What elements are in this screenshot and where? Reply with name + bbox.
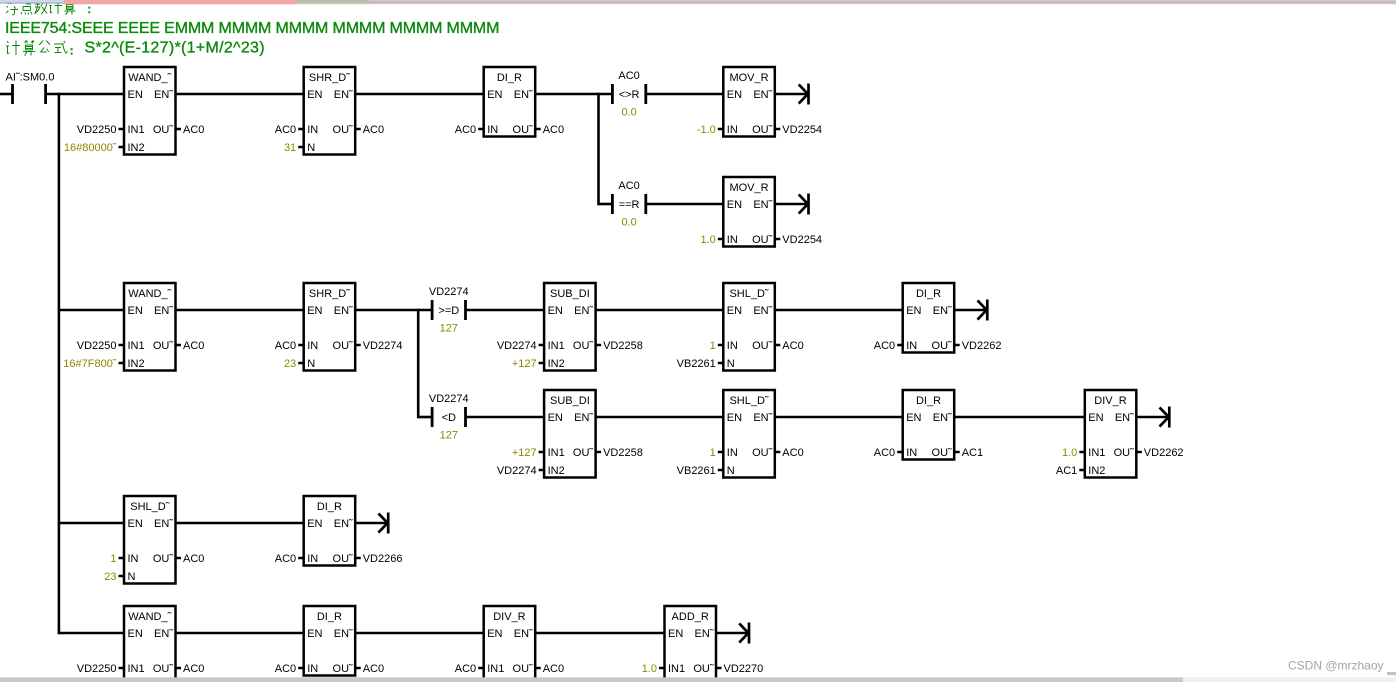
svg-text:1: 1 [110,553,116,565]
svg-text:EN: EN [727,305,742,317]
svg-text:0.0: 0.0 [621,106,636,118]
svg-text:EN: EN [668,628,683,640]
svg-text:AC0: AC0 [874,447,895,459]
svg-text:EN˜: EN˜ [933,412,952,424]
svg-text:SHL_D˜: SHL_D˜ [130,501,169,513]
svg-text:<>R: <>R [619,89,640,101]
svg-text:AC0: AC0 [782,340,803,352]
svg-text:OU˜: OU˜ [333,340,354,352]
svg-text:EN: EN [548,412,563,424]
svg-text:EN˜: EN˜ [574,412,593,424]
svg-text:127: 127 [440,429,458,441]
svg-text:OU˜: OU˜ [513,124,534,136]
function block U14 DIV_R [1056,390,1184,478]
svg-text:EN: EN [128,628,143,640]
svg-text:EN: EN [727,412,742,424]
wire N4 rail to WAND [59,632,124,635]
svg-text:OU˜: OU˜ [752,234,773,246]
svg-text:EN˜: EN˜ [154,628,173,640]
wire N2b DIV to arrow [1136,416,1168,419]
svg-text:DI_R: DI_R [916,288,941,300]
wire N2b SUB to SHL [596,416,724,419]
svg-text:==R: ==R [619,199,640,211]
svg-text:16#80000˜: 16#80000˜ [64,142,117,154]
svg-text:OU˜: OU˜ [752,124,773,136]
function block U7 SHR_DW [275,283,403,371]
svg-text:EN: EN [307,89,322,101]
svg-text:EN: EN [727,89,742,101]
function block U4 MOV_R [697,67,822,137]
wire N2b branch to contact [418,416,432,419]
svg-text:OU˜: OU˜ [1114,447,1135,459]
svg-text:VD2250: VD2250 [77,663,117,675]
svg-text:AC0: AC0 [275,340,296,352]
scrollbar corner mark [1387,672,1396,675]
comparison contact AC0 ==R 0.0 [612,180,645,229]
svg-text:AC0: AC0 [782,447,803,459]
svg-text:DI_R: DI_R [497,72,522,84]
svg-text:EN: EN [128,518,143,530]
wire N2b contact to SUB [466,416,545,419]
svg-text:MOV_R: MOV_R [729,182,768,194]
svg-text:EN˜: EN˜ [1115,412,1134,424]
svg-text:EN˜: EN˜ [154,89,173,101]
svg-text:OU˜: OU˜ [573,340,594,352]
svg-text:OU˜: OU˜ [333,124,354,136]
svg-text:EN: EN [1088,412,1103,424]
svg-text:AC0: AC0 [543,124,564,136]
svg-text:IN1: IN1 [487,663,504,675]
svg-text:DI_R: DI_R [317,611,342,623]
svg-text:IN: IN [906,447,917,459]
svg-text:EN˜: EN˜ [933,305,952,317]
svg-text:SHL_D˜: SHL_D˜ [729,288,768,300]
wire N1 contact to MOV [646,93,724,96]
svg-text:S*2^(E-127)*(1+M/2^23): S*2^(E-127)*(1+M/2^23) [85,40,265,57]
svg-text:EN˜: EN˜ [334,518,353,530]
svg-text:16#7F800˜: 16#7F800˜ [63,358,117,370]
contact AI~:SM0.0 (normally open pair) [6,71,55,104]
svg-text:OU˜: OU˜ [333,663,354,675]
svg-text:CSDN @mrzhaoy: CSDN @mrzhaoy [1288,659,1384,673]
branch wire main left branch [58,93,61,635]
svg-text:AC0: AC0 [183,663,204,675]
rung continuation arrow N2b [1160,407,1170,428]
svg-text:OU˜: OU˜ [153,663,174,675]
svg-text:AC0: AC0 [275,124,296,136]
svg-text:AC0: AC0 [618,180,639,192]
svg-text:OU˜: OU˜ [932,340,953,352]
function block U3 DI_R [455,67,564,137]
svg-text:AC0: AC0 [618,70,639,82]
svg-text:+127: +127 [512,447,537,459]
toolbar strip gray segment [369,0,1396,2]
toolbar strip green segment [297,0,369,3]
svg-text:EN: EN [307,518,322,530]
svg-text:AC0: AC0 [275,663,296,675]
wire N2 SHL to DI_R [775,309,903,312]
svg-text:SUB_DI: SUB_DI [550,288,590,300]
svg-text:VD2274: VD2274 [429,393,469,405]
svg-text:EN˜: EN˜ [334,628,353,640]
function block U16 DI_R [275,496,403,566]
svg-text:WAND_˜: WAND_˜ [128,611,171,623]
svg-text:EN: EN [307,305,322,317]
svg-text:IN: IN [128,553,139,565]
wire N4 WAND to DI_R [176,632,304,635]
svg-text:N: N [307,142,315,154]
svg-text:1.0: 1.0 [1062,447,1077,459]
function block U17 WAND_DW [77,606,205,687]
svg-text:VD2274: VD2274 [497,340,537,352]
wire N3 rail to SHL [59,522,124,525]
wire N2b SHL to DI_R [775,416,903,419]
rung continuation arrow N3 [378,513,388,534]
svg-text:OU˜: OU˜ [153,340,174,352]
svg-text:VD2266: VD2266 [363,553,403,565]
function block U20 ADD_R [642,606,764,687]
svg-text:DI_R: DI_R [916,395,941,407]
wire N1b contact to MOV [646,203,724,206]
svg-text:-1.0: -1.0 [697,124,716,136]
svg-text:1: 1 [710,447,716,459]
svg-text:>=D: >=D [438,305,459,317]
svg-text:SUB_DI: SUB_DI [550,395,590,407]
svg-text:IN1: IN1 [128,663,145,675]
svg-text:IN1: IN1 [548,340,565,352]
svg-text:EN: EN [128,89,143,101]
svg-text:23: 23 [104,571,116,583]
svg-text:DIV_R: DIV_R [1094,395,1126,407]
svg-text:EN: EN [307,628,322,640]
svg-text:EN: EN [548,305,563,317]
svg-text:OU˜: OU˜ [693,663,714,675]
svg-text:IEEE754:SEEE EEEE EMMM MMMM MM: IEEE754:SEEE EEEE EMMM MMMM MMMM MMMM MM… [5,20,499,37]
comparison contact VD2274 <D 127 [429,393,469,442]
svg-text:DI_R: DI_R [317,501,342,513]
svg-text:EN˜: EN˜ [574,305,593,317]
svg-text:VD2258: VD2258 [603,340,643,352]
toolbar strip pink segment [64,0,298,4]
svg-text:VD2258: VD2258 [603,447,643,459]
svg-text:EN: EN [487,89,502,101]
wire N1 DI_R to contact [535,93,612,96]
svg-text:IN: IN [307,340,318,352]
svg-text:SHR_D˜: SHR_D˜ [309,288,350,300]
svg-text:N: N [307,358,315,370]
rung continuation arrow N2 [978,300,988,321]
wire N1b MOV to arrow [775,203,807,206]
svg-text:VD2270: VD2270 [724,663,764,675]
svg-text:AC0: AC0 [363,124,384,136]
svg-text:23: 23 [284,358,296,370]
svg-text:EN˜: EN˜ [514,89,533,101]
svg-text:EN˜: EN˜ [154,305,173,317]
function block U1 WAND_DW [64,67,205,155]
wire N4 DI_R to DIV [355,632,484,635]
svg-text:OU˜: OU˜ [513,663,534,675]
svg-text:IN1: IN1 [128,124,145,136]
wire N2b DI_R to DIV [954,416,1085,419]
svg-text:127: 127 [440,322,458,334]
svg-text:ADD_R: ADD_R [672,611,709,623]
svg-text:IN1: IN1 [1088,447,1105,459]
svg-text:AC0: AC0 [275,553,296,565]
function block U10 DI_R [874,283,1002,353]
svg-text:WAND_˜: WAND_˜ [128,72,171,84]
function block U11 SUB_DI [497,390,643,478]
svg-text:IN: IN [727,340,738,352]
svg-text:VD2274: VD2274 [429,286,469,298]
wire N2 DI_R to arrow [954,309,986,312]
node: left rail stub network 1 [0,93,13,96]
svg-text:OU˜: OU˜ [153,553,174,565]
svg-text:31: 31 [284,142,296,154]
svg-text:EN˜: EN˜ [514,628,533,640]
svg-text:1.0: 1.0 [642,663,657,675]
svg-text:AC0: AC0 [183,124,204,136]
function block U9 SHL_DW [677,283,804,371]
function block U6 WAND_DW [63,283,204,371]
svg-text:VD2262: VD2262 [1144,447,1184,459]
svg-text:VD2254: VD2254 [782,234,822,246]
wire N1 WAND to SHR [176,93,304,96]
svg-text:IN1: IN1 [128,340,145,352]
svg-text:SHR_D˜: SHR_D˜ [309,72,350,84]
svg-text:EN˜: EN˜ [154,518,173,530]
svg-text:VD2274: VD2274 [363,340,403,352]
svg-text:EN˜: EN˜ [753,199,772,211]
svg-text:AC1: AC1 [1056,465,1077,477]
svg-text:IN: IN [487,124,498,136]
wire N1b branch to contact [599,203,613,206]
svg-text:EN˜: EN˜ [753,89,772,101]
svg-text:AC0: AC0 [363,663,384,675]
horizontal scrollbar track [1183,677,1396,682]
svg-text:VD2250: VD2250 [77,124,117,136]
function block U19 DIV_R [455,606,564,687]
svg-text:AC0: AC0 [183,340,204,352]
svg-text:AC1: AC1 [962,447,983,459]
wire N1 SHR to DI_R [355,93,484,96]
rung continuation arrow N1b [799,194,809,215]
svg-text:N: N [727,465,735,477]
svg-text:VD2274: VD2274 [497,465,537,477]
svg-text:EN˜: EN˜ [334,305,353,317]
svg-text:EN˜: EN˜ [695,628,714,640]
svg-text:IN2: IN2 [548,358,565,370]
svg-text:EN: EN [487,628,502,640]
wire N2 SHR to contact [355,309,432,312]
branch wire branch to < rung [417,309,420,419]
svg-text:AC0: AC0 [183,553,204,565]
svg-text:OU˜: OU˜ [752,447,773,459]
rung continuation arrow N4 [739,623,749,644]
function block U15 SHL_DW [104,496,204,584]
svg-text:0.0: 0.0 [621,216,636,228]
svg-text:AC0: AC0 [455,124,476,136]
wire N2 contact to SUB [466,309,545,312]
svg-text:EN: EN [906,305,921,317]
wire N2 rail to WAND [59,309,124,312]
wire N3 DI_R to arrow [355,522,387,525]
comment text line 1 (Chinese): float calculation title [6,1,90,15]
svg-text:EN˜: EN˜ [334,89,353,101]
svg-text:EN˜: EN˜ [753,305,772,317]
svg-text:AI˜:SM0.0: AI˜:SM0.0 [6,71,55,83]
svg-text:OU˜: OU˜ [573,447,594,459]
wire N4 DIV to ADD [535,632,664,635]
svg-text:IN: IN [307,663,318,675]
comment text line 3: formula [6,40,265,57]
svg-text:AC0: AC0 [455,663,476,675]
svg-text:OU˜: OU˜ [333,553,354,565]
comparison contact AC0 <>R 0.0 [612,70,645,119]
wire N1 MOV to arrow [775,93,807,96]
svg-text:N: N [128,571,136,583]
svg-text:1: 1 [710,340,716,352]
wire N2 SUB to SHL [596,309,724,312]
rung continuation arrow N1 [799,84,809,105]
svg-text:VD2262: VD2262 [962,340,1002,352]
wire N4 ADD to arrow [716,632,748,635]
svg-text:IN: IN [727,124,738,136]
svg-text:EN: EN [727,199,742,211]
svg-text:EN˜: EN˜ [753,412,772,424]
function block U8 SUB_DI [497,283,643,371]
function block U18 DI_R [275,606,384,676]
svg-text:IN: IN [727,447,738,459]
svg-text:+127: +127 [512,358,537,370]
svg-text:WAND_˜: WAND_˜ [128,288,171,300]
svg-text:MOV_R: MOV_R [729,72,768,84]
wire N3 SHL to DI_R [176,522,304,525]
function block U5 MOV_R [701,177,823,247]
svg-text:AC0: AC0 [874,340,895,352]
svg-text:IN: IN [906,340,917,352]
function block U13 DI_R [874,390,983,460]
horizontal scrollbar thumb [0,677,1183,682]
svg-text:IN2: IN2 [128,358,145,370]
wire N2 WAND to SHR [176,309,304,312]
function block U12 SHL_DW [677,390,804,478]
svg-text:DIV_R: DIV_R [493,611,525,623]
svg-text:OU˜: OU˜ [932,447,953,459]
svg-text:VD2254: VD2254 [782,124,822,136]
branch wire branch to == rung [597,93,600,206]
toolbar tab (top-left) [0,0,64,3]
svg-text:1.0: 1.0 [701,234,716,246]
svg-text:IN1: IN1 [668,663,685,675]
function block U2 SHR_DW [275,67,384,155]
svg-text:IN2: IN2 [1088,465,1105,477]
svg-text:OU˜: OU˜ [752,340,773,352]
svg-text:OU˜: OU˜ [153,124,174,136]
svg-text:IN: IN [307,553,318,565]
svg-text:VB2261: VB2261 [677,358,716,370]
svg-text:EN: EN [128,305,143,317]
svg-text:IN2: IN2 [128,142,145,154]
svg-text:EN: EN [906,412,921,424]
svg-text:IN2: IN2 [548,465,565,477]
svg-text:IN: IN [727,234,738,246]
svg-text:VB2261: VB2261 [677,465,716,477]
wire N1 contact to WAND [46,93,124,96]
comparison contact VD2274 >=D 127 [429,286,469,335]
svg-text:IN: IN [307,124,318,136]
svg-text:AC0: AC0 [543,663,564,675]
svg-text:<D: <D [442,412,456,424]
svg-text:SHL_D˜: SHL_D˜ [729,395,768,407]
svg-text:N: N [727,358,735,370]
svg-text:VD2250: VD2250 [77,340,117,352]
svg-text:IN1: IN1 [548,447,565,459]
